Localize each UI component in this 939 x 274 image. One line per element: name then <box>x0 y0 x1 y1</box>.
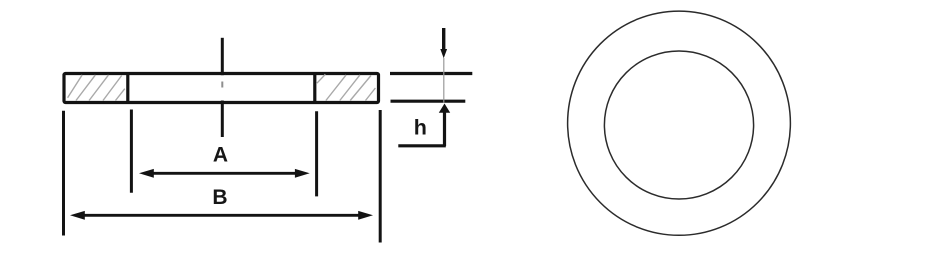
washer outer circle <box>568 11 791 235</box>
svg-text:B: B <box>212 186 227 209</box>
h down arrow <box>440 28 447 58</box>
extension line A left <box>130 110 133 193</box>
hatch divider right <box>313 72 316 104</box>
center line dash inside section <box>221 82 223 88</box>
extension line A right <box>315 111 318 196</box>
dimension arrow A <box>139 169 310 178</box>
h leader underline <box>398 144 446 147</box>
left hatch section <box>68 75 125 101</box>
h thin leader line <box>443 58 445 103</box>
center line upper segment <box>221 38 224 75</box>
extension line B left <box>62 111 65 236</box>
extension line B right <box>379 110 382 243</box>
h bottom extension line <box>391 100 466 103</box>
washer cross-section outline <box>64 74 379 103</box>
hatch divider left <box>126 72 129 104</box>
center line lower segment <box>221 101 224 138</box>
h up arrow <box>439 104 450 147</box>
right hatch section <box>317 74 376 100</box>
svg-text:A: A <box>213 144 228 167</box>
dimension arrow B <box>70 211 373 220</box>
svg-text:h: h <box>414 115 427 139</box>
washer inner circle <box>604 51 753 199</box>
h top extension line <box>390 72 472 75</box>
